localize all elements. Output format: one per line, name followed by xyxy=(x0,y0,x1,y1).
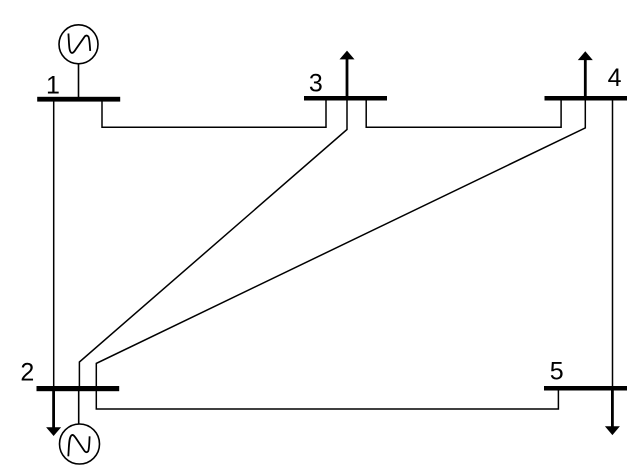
generator G2 xyxy=(60,391,100,464)
wire bus2-bus4 xyxy=(96,100,585,387)
wire bus2-bus5 xyxy=(96,387,558,409)
bus 5 xyxy=(544,386,627,391)
injection arrow at bus 4 (up) xyxy=(578,51,593,97)
wire bus2-bus3 xyxy=(79,100,347,387)
bus 1 xyxy=(37,97,120,102)
wire bus3-bus4 xyxy=(366,97,561,127)
svg-text:4: 4 xyxy=(608,64,622,92)
wire bus1-bus2 xyxy=(53,101,55,387)
bus 2 xyxy=(37,386,120,391)
wire bus4-bus5 xyxy=(612,100,614,387)
wire bus1-bus3 xyxy=(102,97,326,127)
bus 3 xyxy=(304,96,387,101)
bus 4 xyxy=(545,96,628,101)
generator G1 xyxy=(59,25,98,97)
svg-text:1: 1 xyxy=(46,71,60,99)
svg-text:3: 3 xyxy=(309,70,323,98)
load arrow at bus 2 (down) xyxy=(46,390,61,436)
load arrow at bus 5 (down) xyxy=(605,390,620,435)
injection arrow at bus 3 (up) xyxy=(340,51,355,97)
svg-text:2: 2 xyxy=(20,359,34,387)
svg-text:5: 5 xyxy=(550,357,564,385)
